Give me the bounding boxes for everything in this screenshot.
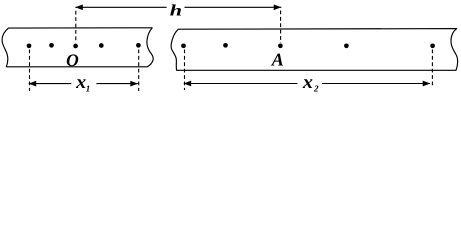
dashed extension line above A <box>280 11 282 43</box>
left tape strip <box>2 28 153 67</box>
h dimension line right segment <box>185 6 282 8</box>
svg-text:2: 2 <box>313 84 319 94</box>
dot A right strip <box>278 43 283 48</box>
x2 dimension line left segment <box>184 83 298 85</box>
dot 4 right strip <box>344 43 349 48</box>
dot 2 right strip <box>223 43 228 48</box>
dashed extension line below left dot5 <box>138 50 140 92</box>
dot 4 left strip <box>99 43 104 48</box>
dot O left strip <box>73 44 78 49</box>
svg-text:A: A <box>271 50 284 70</box>
x1 dimension line right segment <box>96 83 137 85</box>
dot 5 right strip <box>430 43 435 48</box>
right tape strip <box>171 29 458 71</box>
dashed extension line below right dot5 <box>431 50 433 88</box>
svg-text:x: x <box>302 72 314 93</box>
dot 1 left strip <box>27 43 32 48</box>
x2 right arrowhead <box>423 81 431 87</box>
h left arrowhead <box>75 4 83 10</box>
dashed extension line above O <box>75 11 77 43</box>
svg-text:1: 1 <box>86 84 91 94</box>
h dimension line left segment <box>75 6 166 8</box>
x1 dimension line left segment <box>29 83 72 85</box>
x2 left arrowhead <box>184 81 192 87</box>
x1 left arrowhead <box>29 81 37 87</box>
dot 2 left strip <box>49 43 54 48</box>
svg-text:h: h <box>170 2 182 19</box>
dot 5 left strip <box>136 43 141 48</box>
h right arrowhead <box>274 4 282 10</box>
dot 1 right strip <box>181 43 186 48</box>
x2 dimension line right segment <box>322 83 430 85</box>
dashed extension line below left dot1 <box>29 50 31 92</box>
dashed extension line below right dot1 <box>184 50 186 91</box>
svg-text:O: O <box>66 50 79 70</box>
x1 right arrowhead <box>130 81 138 87</box>
